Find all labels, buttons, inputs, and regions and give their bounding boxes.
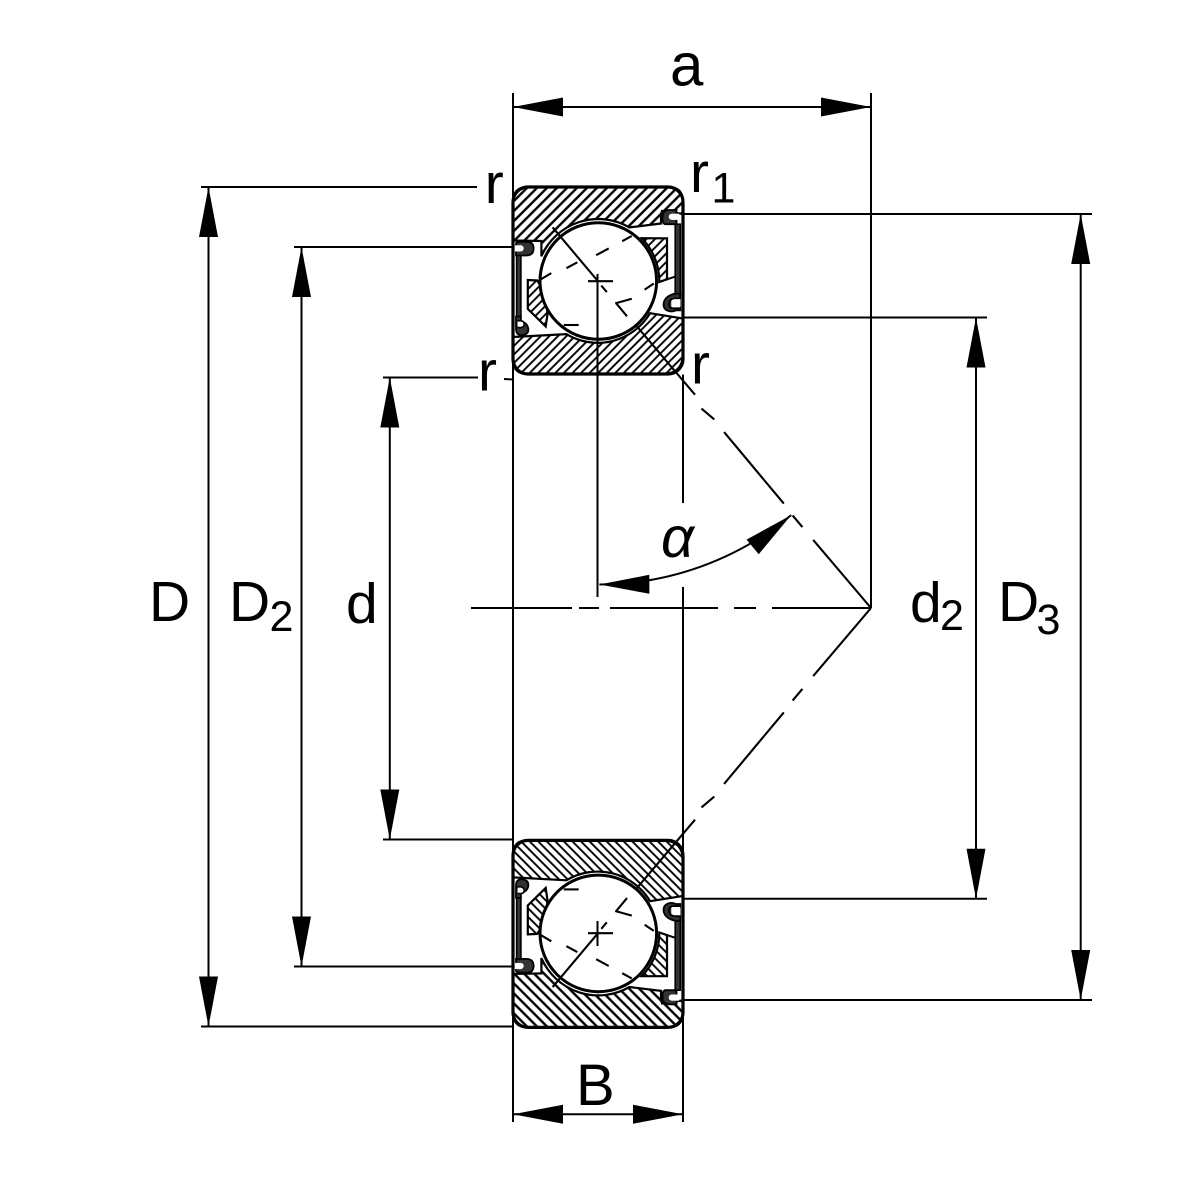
extension line x=683 lower	[682, 587, 684, 1122]
svg-text:d: d	[346, 572, 378, 636]
extension line x=683 upper	[682, 375, 684, 504]
dimension D2	[294, 246, 513, 248]
dimension d2	[684, 317, 987, 319]
dimension D3	[684, 213, 1092, 215]
svg-text:r: r	[478, 340, 497, 404]
dimension D	[201, 186, 477, 188]
svg-text:B: B	[576, 1053, 615, 1118]
centerline	[471, 607, 871, 609]
svg-text:D: D	[229, 570, 270, 634]
svg-text:D: D	[149, 570, 190, 634]
svg-text:α: α	[661, 505, 696, 570]
svg-text:r: r	[485, 152, 504, 216]
svg-text:1: 1	[712, 164, 736, 212]
svg-text:d: d	[910, 571, 942, 635]
top bearing	[513, 187, 695, 395]
upper contact line outside	[702, 409, 872, 808]
svg-text:a: a	[670, 32, 704, 99]
dimension d	[383, 377, 478, 379]
extension line x=513	[512, 93, 514, 1122]
svg-text:2: 2	[270, 593, 294, 641]
top ball vertical line	[597, 274, 599, 597]
svg-text:D: D	[998, 570, 1039, 634]
dimension B	[513, 1113, 683, 1115]
extension line x=871	[870, 93, 872, 608]
svg-text:r: r	[690, 141, 709, 205]
alpha arc	[599, 515, 791, 584]
svg-text:r: r	[691, 333, 710, 397]
alpha arc arrows	[599, 575, 649, 594]
svg-text:3: 3	[1037, 596, 1061, 644]
dimension a	[513, 106, 871, 108]
bottom bearing (mirrored)	[513, 820, 695, 1028]
bottom ball cross vertical	[597, 921, 599, 946]
lower contact line outside	[702, 797, 715, 808]
svg-text:2: 2	[940, 592, 964, 640]
